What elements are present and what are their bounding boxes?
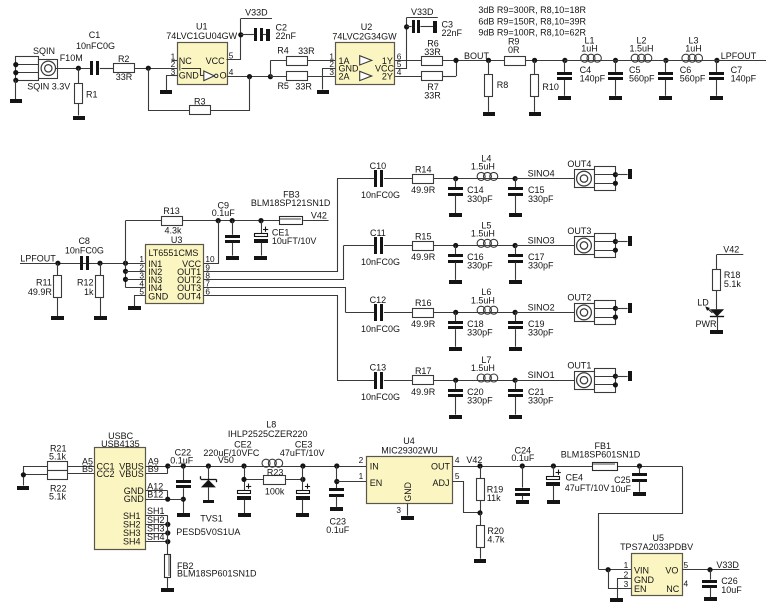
node [663,58,668,63]
wire [100,68,114,70]
svg-text:11k: 11k [487,493,501,503]
ground [254,256,267,260]
svg-text:140pF: 140pF [580,74,606,84]
node [241,463,246,468]
capacitor C14 [448,179,493,213]
svg-text:GND: GND [148,291,169,301]
svg-text:1.5uH: 1.5uH [471,162,495,172]
svg-text:10nFC0G: 10nFC0G [361,257,400,267]
resistor R8 [485,60,509,111]
ground [704,597,717,601]
svg-text:V33D: V33D [411,7,434,17]
capacitor C3 [412,19,463,38]
node LPFOUT [717,51,766,61]
svg-text:R5: R5 [277,81,289,91]
capacitor CE1 [254,221,316,256]
node [513,310,518,315]
ground [433,21,437,33]
ground [628,169,632,179]
ground [73,116,85,120]
ground [296,513,309,517]
ferrite bead FB1 [561,441,641,471]
wire [308,60,336,62]
ground [509,213,522,217]
svg-text:VBUS: VBUS [119,469,144,479]
svg-text:0.1uF: 0.1uF [511,453,535,463]
ground [659,96,672,100]
svg-text:1k: 1k [84,287,94,297]
capacitor C13 [361,363,400,402]
node [181,463,186,468]
svg-text:O: O [220,71,227,81]
resistor R20 [477,513,505,559]
ground [94,316,107,320]
power V42 [304,210,329,220]
ground [160,90,172,94]
resistor R2 [114,54,135,82]
svg-text:49.9R: 49.9R [411,185,436,195]
node [551,463,556,468]
capacitor CE4 [546,466,609,500]
wire V42 rail [453,455,683,468]
svg-text:49.9R: 49.9R [411,387,436,397]
resistor R13 [126,206,183,235]
svg-text:4: 4 [684,579,689,589]
ground [203,500,214,503]
node BOUT [442,51,505,77]
capacitor C23 [326,466,350,535]
svg-text:R23: R23 [267,467,284,477]
wire EN [609,570,632,589]
inductor L6 [471,287,498,314]
ground [177,513,190,517]
wire [135,296,146,307]
svg-text:330pF: 330pF [467,194,493,204]
svg-text:R1: R1 [86,90,98,100]
svg-text:10uFT/10V: 10uFT/10V [272,236,317,246]
svg-text:OUT4: OUT4 [567,159,591,169]
svg-text:1.5uH: 1.5uH [471,295,495,305]
svg-text:10uF: 10uF [610,484,631,494]
svg-text:5: 5 [455,471,460,481]
ground [609,96,622,100]
ground [633,492,646,496]
wire V50 rail [168,455,367,466]
ground [558,96,571,100]
svg-text:BLM18SP601SN1D: BLM18SP601SN1D [561,450,641,460]
svg-text:33R: 33R [116,72,133,82]
wire [337,178,374,180]
wire [526,58,565,63]
wire [211,77,250,111]
svg-text:R3: R3 [194,96,206,106]
svg-text:220uF/10VFC: 220uF/10VFC [203,448,260,458]
capacitor C22 [170,447,194,513]
capacitor C1 [76,30,115,75]
svg-text:MIC29302WU: MIC29302WU [381,445,438,455]
svg-text:3: 3 [624,579,629,589]
resistor R5 [270,72,312,92]
svg-text:49.9R: 49.9R [411,252,436,262]
svg-text:1uH: 1uH [581,44,598,54]
wire EN [337,481,367,483]
svg-text:0.1uF: 0.1uF [326,525,350,535]
svg-text:OUT: OUT [431,462,451,472]
ground [51,316,64,320]
svg-text:U2: U2 [361,22,373,32]
svg-text:GND: GND [124,494,145,504]
svg-text:U1: U1 [196,21,208,31]
svg-text:V42: V42 [311,210,327,220]
wire [599,467,683,570]
ground [17,486,29,490]
ground [128,306,141,310]
resistor R14 [411,164,436,195]
svg-text:2: 2 [359,455,364,465]
svg-text:2Y: 2Y [382,71,393,81]
node [513,243,518,248]
wire pin A5 [68,457,94,467]
ground [628,371,632,381]
power V33D [682,560,739,573]
wire pin SH3 [146,523,171,535]
svg-text:33R: 33R [424,47,441,57]
svg-text:OUT2: OUT2 [567,293,591,303]
svg-text:SINO4: SINO4 [528,169,555,179]
node [258,218,263,223]
svg-text:5.1k: 5.1k [49,452,67,462]
svg-text:R16: R16 [415,298,432,308]
wire [384,178,412,180]
wire [407,503,409,515]
svg-text:100k: 100k [265,487,285,497]
wire pin SH1 [146,506,168,516]
capacitor C4 [557,60,606,95]
wire [167,76,178,91]
wire [384,380,412,382]
regulator U5 [620,533,693,595]
svg-text:VO: VO [665,565,678,575]
ground [401,516,414,520]
svg-text:NC: NC [666,584,679,594]
svg-text:330pF: 330pF [467,261,493,271]
resistor R6 [395,39,442,66]
wire [227,74,273,79]
svg-text:V33D: V33D [245,8,268,18]
wire ADJ [453,482,483,516]
svg-text:4: 4 [455,455,460,465]
resistor R1 [75,68,98,115]
svg-text:140pF: 140pF [731,74,757,84]
svg-text:560pF: 560pF [629,74,655,84]
inductor L1 [581,35,602,62]
resistor R22 [23,471,67,502]
capacitor C15 [508,179,554,213]
wire [21,466,26,486]
svg-text:3dB R9=300R, R8,10=18R: 3dB R9=300R, R8,10=18R [478,5,586,15]
regulator U4 [359,436,460,515]
connector SQIN [13,46,83,92]
wire [123,221,146,288]
wire GND [618,579,632,599]
svg-text:C10: C10 [370,161,387,171]
svg-text:OUT1: OUT1 [567,361,591,371]
svg-text:C13: C13 [370,363,387,373]
connector OUT2 [567,293,627,325]
capacitor C26 [702,570,742,598]
wire [384,245,412,247]
svg-text:EN: EN [634,584,647,594]
svg-text:330pF: 330pF [528,194,554,204]
connector OUT4 [567,159,627,191]
wire pin SH2 [146,515,171,527]
resistor R10 [531,60,559,111]
ground [710,96,723,100]
svg-text:C12: C12 [370,295,387,305]
wire pin A12 [146,481,168,499]
svg-text:4: 4 [229,67,234,77]
capacitor C7 [709,60,757,95]
capacitor C16 [448,246,493,280]
node [714,58,719,63]
wire [182,218,304,264]
resistor R4 [270,46,315,66]
svg-text:OUT4: OUT4 [177,291,201,301]
svg-text:330pF: 330pF [467,395,493,405]
capacitor C10 [361,161,400,200]
svg-text:5: 5 [684,560,689,570]
wire [344,245,374,247]
svg-text:SINO1: SINO1 [528,370,555,380]
svg-text:10nFC0G: 10nFC0G [361,324,400,334]
svg-text:10nFC0G: 10nFC0G [361,190,400,200]
node [404,24,409,29]
wire [433,176,515,181]
svg-text:10uF: 10uF [721,585,742,595]
resistor R19 [477,466,504,513]
svg-text:5.1k: 5.1k [49,492,67,502]
svg-text:1.5uH: 1.5uH [471,363,495,373]
svg-text:SQIN: SQIN [33,46,55,56]
svg-text:C1: C1 [89,30,101,40]
ground [509,280,522,284]
note attenuator values [478,5,586,37]
ground [10,99,22,103]
svg-text:BOUT: BOUT [464,51,490,61]
wire [167,516,169,554]
resistor R9 [505,37,526,66]
wire [396,18,407,69]
svg-text:9dB R9=100R, R8,10=62R: 9dB R9=100R, R8,10=62R [478,28,586,38]
capacitor C17 [508,246,554,280]
inductor L5 [471,220,498,247]
svg-text:U3: U3 [171,235,183,245]
svg-text:33R: 33R [295,81,312,91]
capacitor C20 [448,380,493,414]
svg-text:49.9R: 49.9R [28,287,53,297]
svg-text:330pF: 330pF [528,328,554,338]
svg-text:10nFC0G: 10nFC0G [65,245,104,255]
svg-text:B9: B9 [148,464,159,474]
svg-text:SQIN 3.3V: SQIN 3.3V [27,82,70,92]
connector OUT3 [567,226,627,258]
svg-text:SINO2: SINO2 [528,302,555,312]
svg-text:TPS7A2033PDBV: TPS7A2033PDBV [620,542,693,552]
node [520,463,525,468]
node LPFOUT [20,254,146,266]
svg-text:GND: GND [403,482,413,502]
capacitor C19 [508,312,554,346]
svg-text:PWR: PWR [696,319,717,329]
svg-text:L8: L8 [266,419,276,429]
svg-text:R2: R2 [118,54,130,64]
svg-text:V33D: V33D [716,560,739,570]
wire [565,60,616,62]
svg-text:74LVC2G34GW: 74LVC2G34GW [332,31,397,41]
ground [710,330,723,334]
wire pin B5 [68,464,94,474]
wire [384,312,412,314]
wire [227,19,241,60]
capacitor CE3 [280,439,325,513]
wire OUT1 [204,179,338,272]
resistor R17 [411,366,436,397]
inductor L8 [228,419,308,467]
svg-text:560pF: 560pF [680,74,706,84]
svg-text:BLM18SP121SN1D: BLM18SP121SN1D [251,198,331,208]
svg-text:PESD5V0S1UA: PESD5V0S1UA [176,527,240,537]
svg-text:33R: 33R [298,46,315,56]
wire [56,66,91,71]
resistor R18 [713,270,742,310]
svg-text:330pF: 330pF [467,328,493,338]
amplifier U3 [139,235,215,303]
wire [407,26,412,28]
wire SINO2 [515,302,574,312]
capacitor C18 [448,312,493,346]
resistor R7 [395,72,442,101]
ground [483,112,495,116]
capacitor C12 [361,295,400,334]
node [300,463,305,468]
power V33D [407,7,438,17]
svg-text:LPFOUT: LPFOUT [721,51,757,61]
svg-text:22nF: 22nF [276,31,297,41]
svg-text:IHLP2525CZER220: IHLP2525CZER220 [228,429,308,439]
svg-text:33R: 33R [424,91,441,101]
svg-text:GND: GND [179,71,200,81]
capacitor C25 [610,466,647,494]
wire [616,60,666,62]
wire [15,80,17,99]
ground [516,500,529,504]
wire [433,378,515,383]
resistor R15 [411,231,436,262]
svg-text:6dB R9=150R, R8,10=39R: 6dB R9=150R, R8,10=39R [478,16,586,26]
wire pin B12 [146,490,184,502]
wire pin B9 [146,463,171,474]
wire [666,60,717,62]
capacitor C24 [511,445,535,499]
svg-text:R8: R8 [497,80,509,90]
svg-text:74LVC1GU04GW: 74LVC1GU04GW [166,31,237,41]
svg-text:LD: LD [697,298,709,308]
svg-text:4.7k: 4.7k [487,535,505,545]
ferrite bead FB3 [251,190,331,225]
svg-text:ADJ: ADJ [432,478,449,488]
ground [628,236,632,246]
svg-text:R13: R13 [163,206,180,216]
ground [449,347,462,351]
ground [628,303,632,313]
resistor R23 [241,467,305,496]
ground [266,29,270,41]
ground [226,256,239,260]
ground [610,598,623,602]
wire OUT4 [204,296,338,381]
svg-text:0R: 0R [508,45,520,55]
svg-text:1: 1 [624,560,629,570]
wire [346,312,374,314]
svg-text:VCC: VCC [206,56,226,66]
resistor R12 [77,263,104,316]
svg-text:R14: R14 [415,164,432,174]
svg-text:0.1uF: 0.1uF [212,208,236,218]
resistor R3 [190,96,211,114]
svg-text:1.5uH: 1.5uH [629,44,653,54]
capacitor C9 [212,200,240,255]
inductor L4 [471,153,498,180]
power V42 [717,245,744,270]
capacitor C11 [361,228,400,267]
wire [433,243,515,248]
svg-text:BLM18SP601SN1D: BLM18SP601SN1D [177,569,257,579]
wire SINO4 [515,169,574,179]
inverter U1 [166,21,237,84]
svg-text:R17: R17 [415,366,432,376]
svg-text:R10: R10 [542,82,559,92]
svg-text:OUT3: OUT3 [567,226,591,236]
ground [330,507,343,511]
ground [317,90,329,94]
svg-text:22nF: 22nF [442,28,463,38]
ground [449,280,462,284]
wire VIN [599,567,631,572]
capacitor C8 [65,236,104,270]
node [513,176,518,181]
wire [241,34,254,36]
LED LD PWR [696,298,725,331]
svg-text:2A: 2A [339,71,350,81]
svg-text:B5: B5 [82,464,93,474]
connector OUT1 [567,361,627,393]
svg-text:330pF: 330pF [528,261,554,271]
svg-text:LT6551CMS: LT6551CMS [148,248,198,258]
ground [509,415,522,419]
node [206,463,211,468]
wire pin A9 [146,457,168,467]
svg-text:10nFC0G: 10nFC0G [361,392,400,402]
node [613,58,618,63]
node [230,218,235,223]
resistor R16 [411,298,436,329]
buffer U2 [329,22,401,85]
resistor R11 [28,263,62,316]
wire OUT2 [204,246,344,280]
svg-text:USB4135: USB4135 [101,439,140,449]
wire [270,60,272,76]
svg-text:1: 1 [359,471,364,481]
